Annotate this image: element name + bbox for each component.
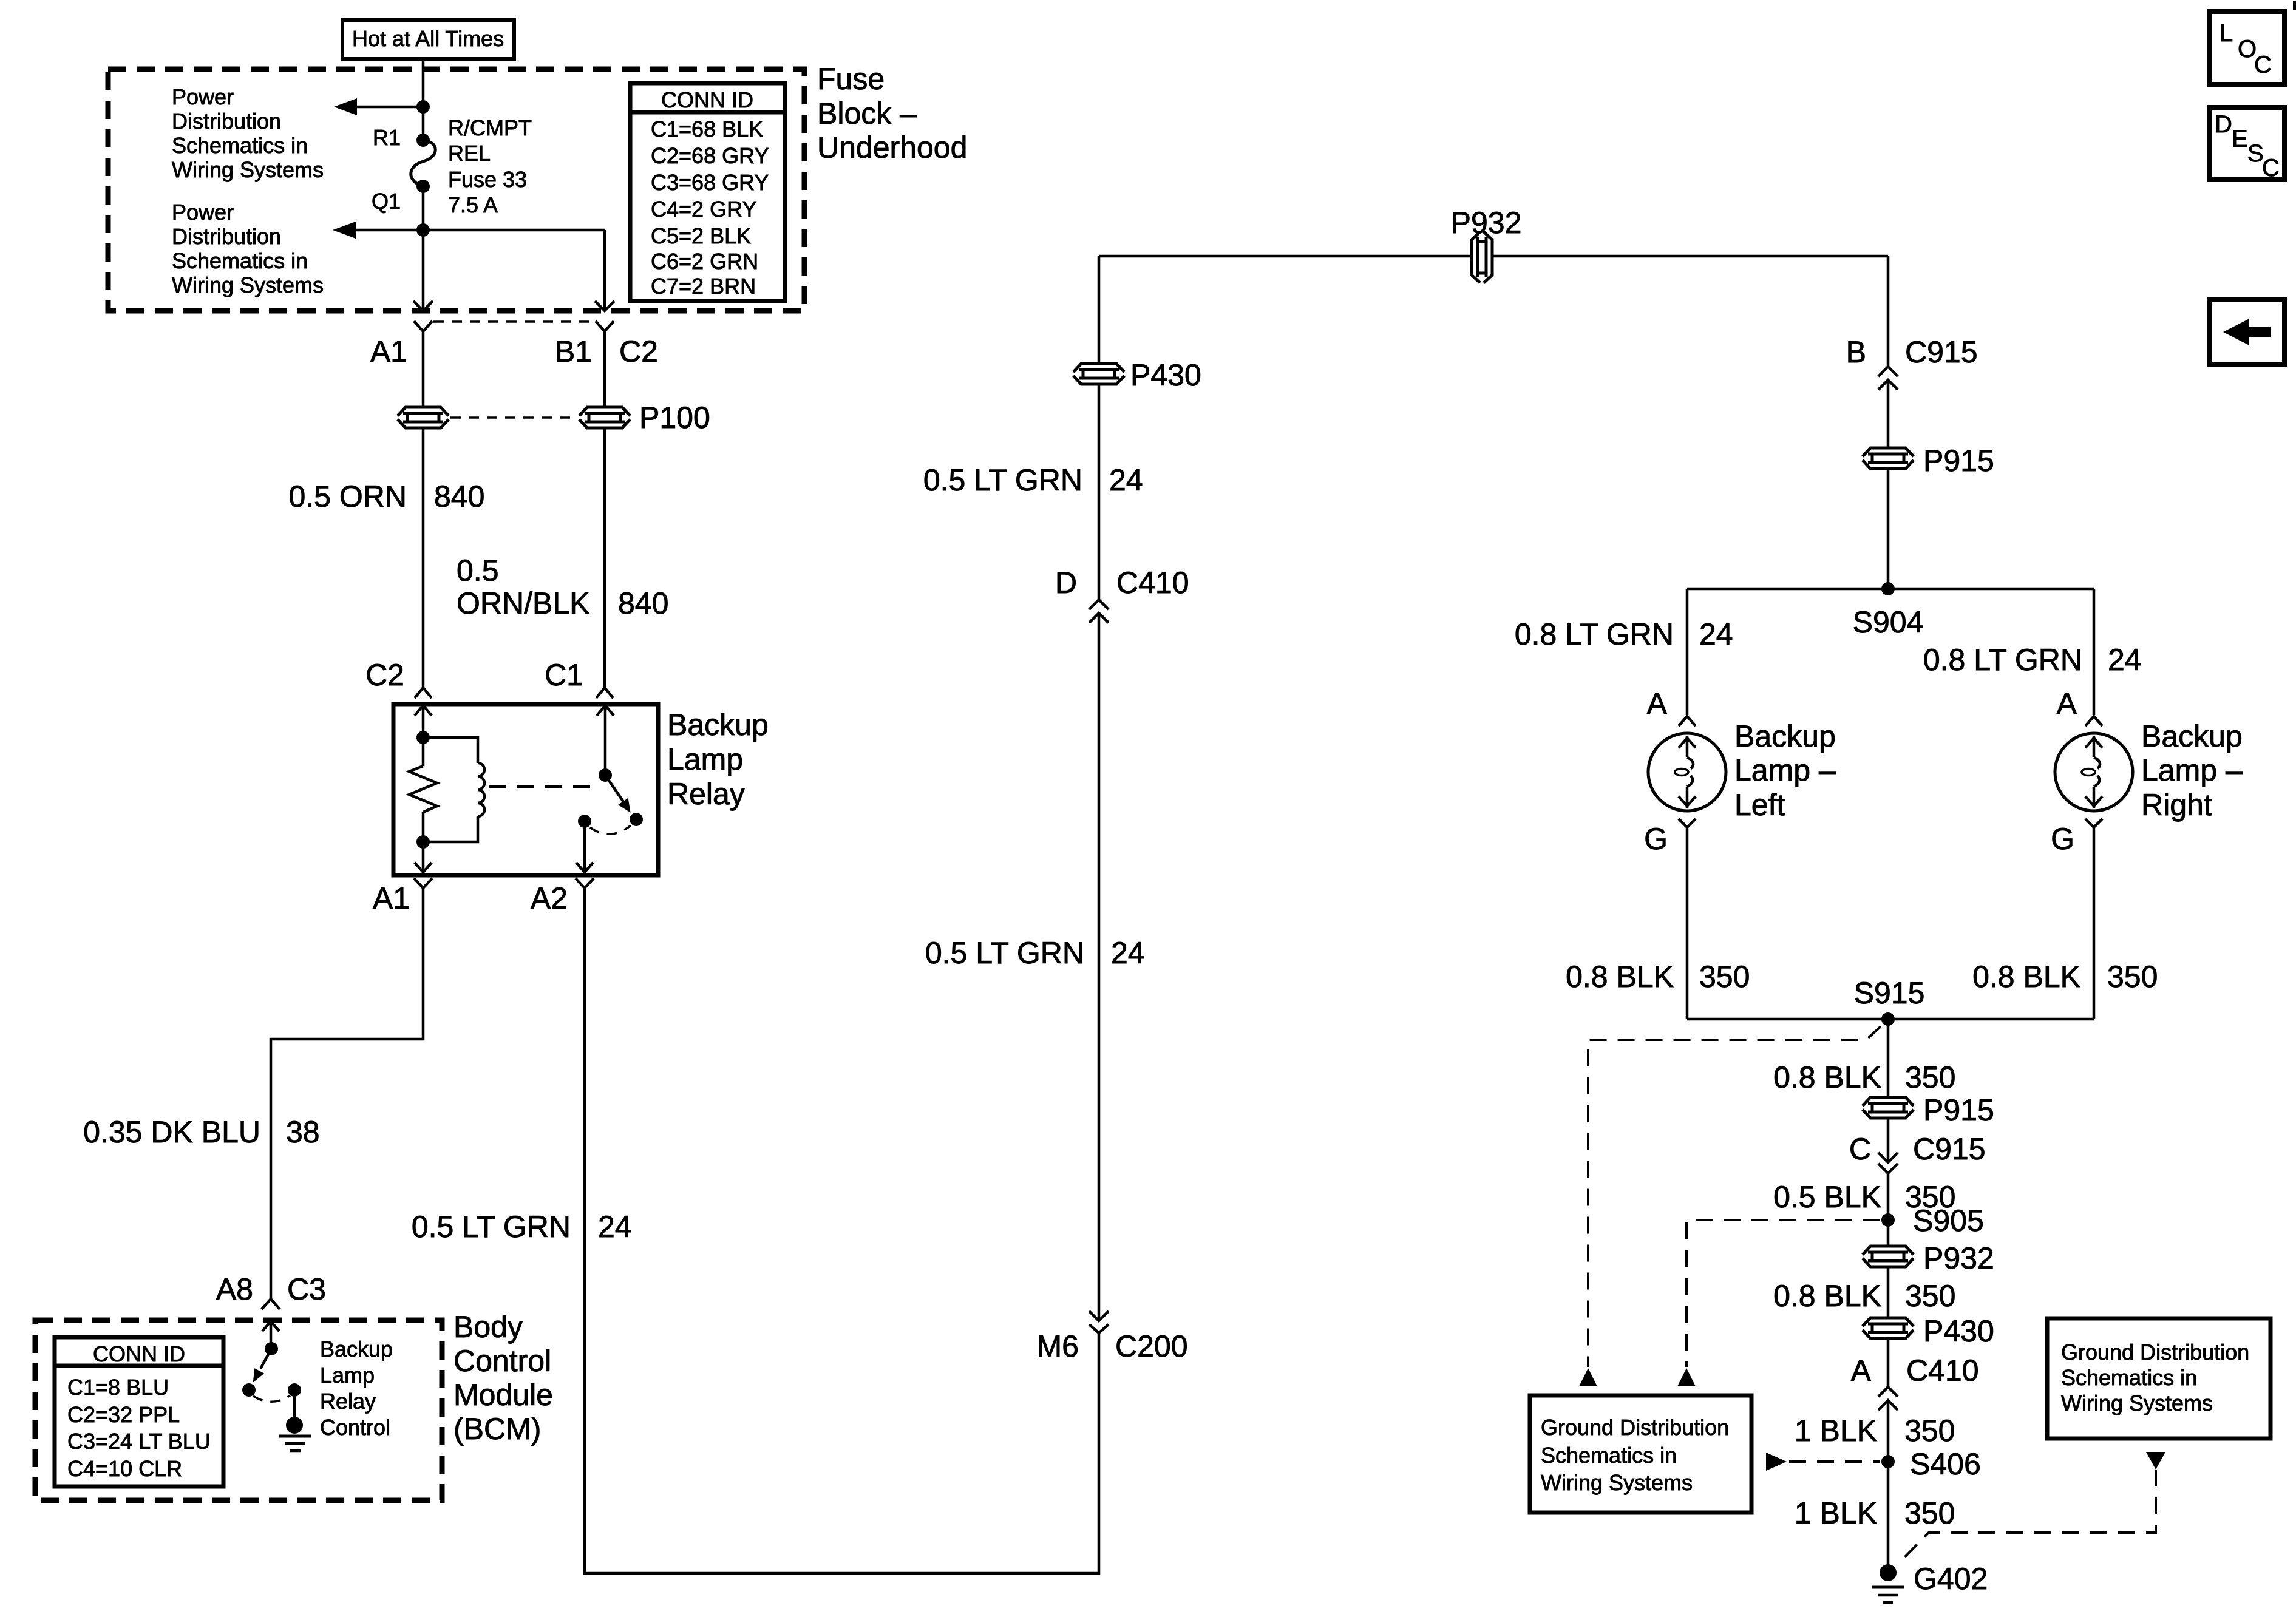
svg-text:C200: C200 [1115,1329,1188,1363]
svg-text:C6=2 GRN: C6=2 GRN [651,249,758,274]
svg-text:Backup: Backup [1734,719,1836,753]
svg-text:G: G [1644,822,1668,856]
svg-text:350: 350 [1905,1060,1955,1094]
svg-text:Lamp –: Lamp – [1734,753,1836,787]
svg-text:350: 350 [1699,960,1750,994]
svg-text:M6: M6 [1037,1329,1079,1363]
svg-text:Fuse: Fuse [817,62,885,96]
svg-text:Wiring Systems: Wiring Systems [1541,1470,1693,1495]
svg-text:C1=8 BLU: C1=8 BLU [67,1375,169,1400]
svg-text:Power: Power [172,200,234,225]
svg-text:C915: C915 [1905,335,1978,369]
svg-text:Control: Control [453,1344,551,1378]
svg-text:Distribution: Distribution [172,224,281,249]
svg-text:Power: Power [172,84,234,109]
svg-text:0.8 BLK: 0.8 BLK [1773,1060,1881,1094]
svg-text:Distribution: Distribution [172,109,281,134]
svg-text:L: L [2220,20,2233,47]
svg-text:C2=32 PPL: C2=32 PPL [67,1402,180,1427]
svg-text:P932: P932 [1923,1241,1994,1275]
svg-text:24: 24 [1109,463,1143,497]
svg-text:24: 24 [1111,936,1145,970]
svg-text:REL: REL [448,141,491,166]
svg-text:C2: C2 [619,334,658,368]
svg-text:CONN ID: CONN ID [93,1341,185,1366]
svg-text:C5=2 BLK: C5=2 BLK [651,223,751,248]
svg-text:CONN ID: CONN ID [661,87,753,112]
svg-text:Backup: Backup [2141,719,2243,753]
svg-text:Schematics in: Schematics in [172,248,308,273]
svg-text:0.8 LT GRN: 0.8 LT GRN [1923,643,2082,677]
svg-text:R/CMPT: R/CMPT [448,115,532,140]
svg-text:S915: S915 [1854,976,1925,1010]
svg-text:840: 840 [618,586,668,620]
svg-text:G: G [2051,822,2074,856]
svg-text:C: C [2262,155,2280,181]
svg-text:0.8 BLK: 0.8 BLK [1773,1279,1881,1313]
svg-text:P915: P915 [1923,444,1994,478]
svg-text:Wiring Systems: Wiring Systems [172,273,324,297]
svg-text:C915: C915 [1913,1132,1986,1166]
svg-text:C: C [2254,52,2272,78]
svg-text:0.5 LT GRN: 0.5 LT GRN [925,936,1084,970]
svg-text:Wiring Systems: Wiring Systems [2061,1391,2213,1415]
svg-text:Ground Distribution: Ground Distribution [2061,1340,2249,1364]
svg-text:C1: C1 [545,658,583,692]
svg-text:P430: P430 [1130,358,1201,392]
svg-text:A2: A2 [531,881,568,915]
svg-text:D: D [1055,566,1077,600]
svg-text:ORN/BLK: ORN/BLK [457,586,590,620]
svg-text:Relay: Relay [667,777,745,811]
svg-text:S904: S904 [1853,605,1924,639]
svg-text:P915: P915 [1923,1093,1994,1127]
svg-text:Lamp –: Lamp – [2141,753,2243,787]
svg-text:C410: C410 [1116,566,1189,600]
svg-text:Schematics in: Schematics in [172,133,308,158]
svg-text:A: A [1851,1354,1872,1388]
svg-text:Right: Right [2141,788,2212,822]
svg-text:350: 350 [2107,960,2158,994]
svg-text:C1=68 BLK: C1=68 BLK [651,117,763,141]
svg-text:350: 350 [1905,1279,1955,1313]
svg-text:0.8 LT GRN: 0.8 LT GRN [1515,617,1674,651]
svg-text:A1: A1 [373,881,410,915]
svg-text:Backup: Backup [667,708,769,742]
svg-text:0.5: 0.5 [457,554,499,588]
svg-text:0.35 DK BLU: 0.35 DK BLU [83,1115,260,1149]
svg-text:Underhood: Underhood [817,131,967,164]
svg-text:C2=68 GRY: C2=68 GRY [651,143,769,168]
svg-text:Q1: Q1 [372,189,401,214]
svg-text:Body: Body [453,1310,523,1344]
svg-text:C: C [1849,1132,1871,1166]
svg-text:C7=2 BRN: C7=2 BRN [651,274,756,299]
svg-text:24: 24 [598,1210,632,1244]
svg-text:24: 24 [2108,643,2142,677]
svg-text:B1: B1 [555,334,592,368]
svg-text:P430: P430 [1923,1314,1994,1348]
svg-text:Left: Left [1734,788,1785,822]
svg-text:A: A [1647,686,1668,720]
svg-text:38: 38 [286,1115,320,1149]
svg-text:A: A [2057,686,2077,720]
svg-text:Fuse 33: Fuse 33 [448,167,527,192]
svg-text:D: D [2215,111,2232,138]
svg-text:P932: P932 [1451,206,1522,240]
svg-text:A8: A8 [216,1272,253,1306]
svg-text:350: 350 [1904,1496,1955,1530]
svg-text:C3=24 LT BLU: C3=24 LT BLU [67,1429,211,1454]
svg-text:0.5 LT GRN: 0.5 LT GRN [923,463,1082,497]
svg-text:Hot at All Times: Hot at All Times [352,26,504,51]
svg-text:350: 350 [1904,1414,1955,1448]
svg-text:0.5 ORN: 0.5 ORN [288,480,407,514]
svg-text:1 BLK: 1 BLK [1795,1414,1877,1448]
svg-text:S905: S905 [1913,1204,1984,1238]
svg-text:Wiring Systems: Wiring Systems [172,157,324,182]
svg-text:C4=2 GRY: C4=2 GRY [651,197,756,222]
svg-text:B: B [1846,335,1866,369]
svg-text:(BCM): (BCM) [453,1412,541,1446]
svg-text:Block –: Block – [817,97,917,131]
svg-text:G402: G402 [1914,1562,1988,1596]
svg-text:R1: R1 [373,125,401,150]
svg-text:24: 24 [1699,617,1733,651]
svg-text:S: S [2247,140,2264,167]
svg-text:840: 840 [434,480,484,514]
svg-text:1 BLK: 1 BLK [1795,1496,1877,1530]
svg-text:E: E [2232,126,2248,152]
svg-text:C410: C410 [1906,1354,1979,1388]
svg-text:A1: A1 [370,334,407,368]
svg-text:0.8 BLK: 0.8 BLK [1566,960,1674,994]
svg-text:Schematics in: Schematics in [2061,1365,2197,1390]
svg-text:Ground Distribution: Ground Distribution [1541,1415,1729,1440]
svg-text:Module: Module [453,1378,553,1412]
svg-text:0.5 LT GRN: 0.5 LT GRN [412,1210,571,1244]
svg-text:Backup: Backup [320,1337,393,1361]
svg-text:Relay: Relay [320,1389,376,1414]
svg-text:Lamp: Lamp [320,1363,375,1388]
svg-text:0.5 BLK: 0.5 BLK [1773,1180,1881,1214]
svg-text:S406: S406 [1910,1447,1981,1481]
svg-text:Schematics in: Schematics in [1541,1443,1677,1468]
svg-text:P100: P100 [639,401,710,435]
svg-text:C3: C3 [287,1272,326,1306]
svg-text:C2: C2 [365,658,404,692]
svg-text:7.5 A: 7.5 A [448,192,498,217]
svg-text:0.8 BLK: 0.8 BLK [1972,960,2080,994]
svg-text:Control: Control [320,1415,390,1440]
svg-text:Lamp: Lamp [667,742,743,776]
svg-text:C3=68 GRY: C3=68 GRY [651,170,769,195]
svg-text:C4=10 CLR: C4=10 CLR [67,1456,182,1481]
